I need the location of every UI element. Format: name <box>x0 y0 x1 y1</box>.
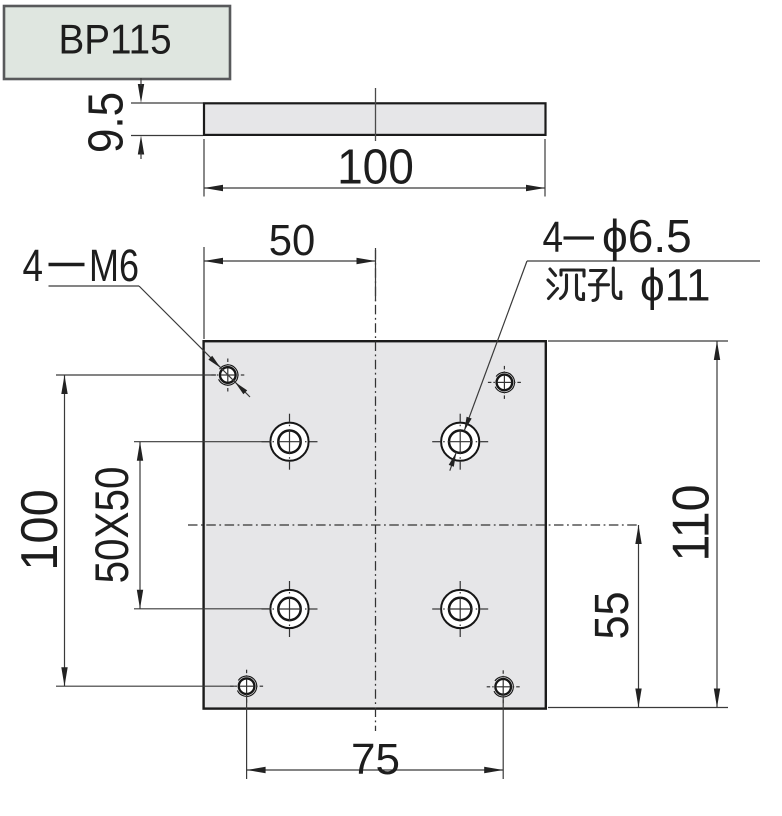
dim 9.5 arrow top <box>138 84 144 103</box>
svg-text:110: 110 <box>662 484 720 561</box>
dim 50 ext right (solid over centerline) <box>375 248 377 301</box>
tapped hole M6 top-left <box>220 367 236 383</box>
dim 75 arrow right <box>484 767 503 773</box>
vertical centerline <box>375 250 377 731</box>
counterbore hole bottom-right <box>441 590 479 628</box>
label 4-phi6.5 dash <box>564 236 595 239</box>
dim 100 left arrow top <box>61 375 67 394</box>
dim 50X50 ext top <box>134 441 271 443</box>
dim 9.5 arrow bottom <box>138 136 144 155</box>
leader 4-phi6.5 arrow end <box>449 452 457 467</box>
svg-text:75: 75 <box>351 735 400 784</box>
label chen-kong (counterbore) char 孔 <box>591 271 607 282</box>
dim 100 left ext top <box>56 374 216 376</box>
dim 55 arrow bottom <box>635 689 641 708</box>
dim 50X50 ext bottom <box>134 608 271 610</box>
dim 50X50 arrow top <box>137 442 143 461</box>
dim 50 ext left <box>203 247 205 339</box>
dim 50 line <box>204 260 376 262</box>
svg-text:100: 100 <box>10 489 69 571</box>
svg-text:4: 4 <box>543 212 564 262</box>
dim 110 arrow bottom <box>714 689 720 708</box>
horizontal centerline <box>188 524 640 526</box>
svg-text:100: 100 <box>337 140 414 195</box>
title box BP115 <box>4 6 230 79</box>
dim 75 ext right <box>502 694 504 779</box>
dim 55 arrow top <box>635 525 641 544</box>
leader 4-phi6.5 arrow at hole <box>464 417 472 432</box>
tapped hole M6 bottom-right <box>495 679 511 695</box>
counterbore hole bottom-left <box>270 590 308 628</box>
svg-text:50: 50 <box>269 216 315 265</box>
dim 75 line <box>247 769 504 771</box>
dim 50 arrow left <box>204 258 223 264</box>
svg-text:50X50: 50X50 <box>86 467 139 584</box>
leader 4-M6 arrow end <box>235 382 247 394</box>
dim 110 arrow top <box>714 341 720 360</box>
dim 100 side ext right <box>544 139 546 197</box>
svg-text:ϕ6.5: ϕ6.5 <box>602 210 692 262</box>
dim 55 line <box>638 525 640 708</box>
dim 9.5 extension line top <box>131 102 203 104</box>
dim 100 left ext bottom <box>56 685 236 687</box>
dim 110 ext bottom <box>548 707 728 709</box>
svg-text:4: 4 <box>23 241 44 291</box>
tapped hole M6 bottom-left <box>239 678 255 694</box>
dim 100 side ext left <box>203 139 205 197</box>
dim 110 ext top <box>548 340 728 342</box>
dim 75 ext left <box>246 694 248 779</box>
svg-text:ϕ11: ϕ11 <box>640 261 710 310</box>
dim 50X50 line <box>139 442 141 609</box>
main plate <box>204 341 546 708</box>
side view center tick <box>375 88 377 141</box>
leader 4-M6 arrow at hole <box>208 356 220 368</box>
dim 75 arrow left <box>247 767 266 773</box>
tapped hole M6 top-right <box>497 375 513 391</box>
label 4-M6 dash <box>49 263 85 266</box>
leader line 4-M6 <box>49 285 140 287</box>
svg-text:M6: M6 <box>89 240 139 291</box>
dim 100 side arrow right <box>526 185 545 191</box>
counterbore hole top-right <box>441 423 479 461</box>
side view plate section <box>204 103 546 135</box>
leader line 4-phi6.5 <box>527 260 760 262</box>
svg-text:BP115: BP115 <box>58 15 171 63</box>
dim 100 side arrow left <box>204 185 223 191</box>
dim 50 arrow right <box>357 258 376 264</box>
dim 9.5 extension line bottom <box>131 135 203 137</box>
dim 110 line <box>716 341 718 708</box>
svg-text:55: 55 <box>585 591 639 639</box>
dim 50X50 arrow bottom <box>137 590 143 609</box>
label chen-kong (counterbore) char 沉 <box>550 269 556 276</box>
counterbore hole top-left <box>270 423 308 461</box>
dim 100 left arrow bottom <box>61 667 67 686</box>
dim 100 side line <box>204 187 545 189</box>
svg-text:9.5: 9.5 <box>78 92 133 153</box>
dim 100 left line <box>64 375 66 686</box>
